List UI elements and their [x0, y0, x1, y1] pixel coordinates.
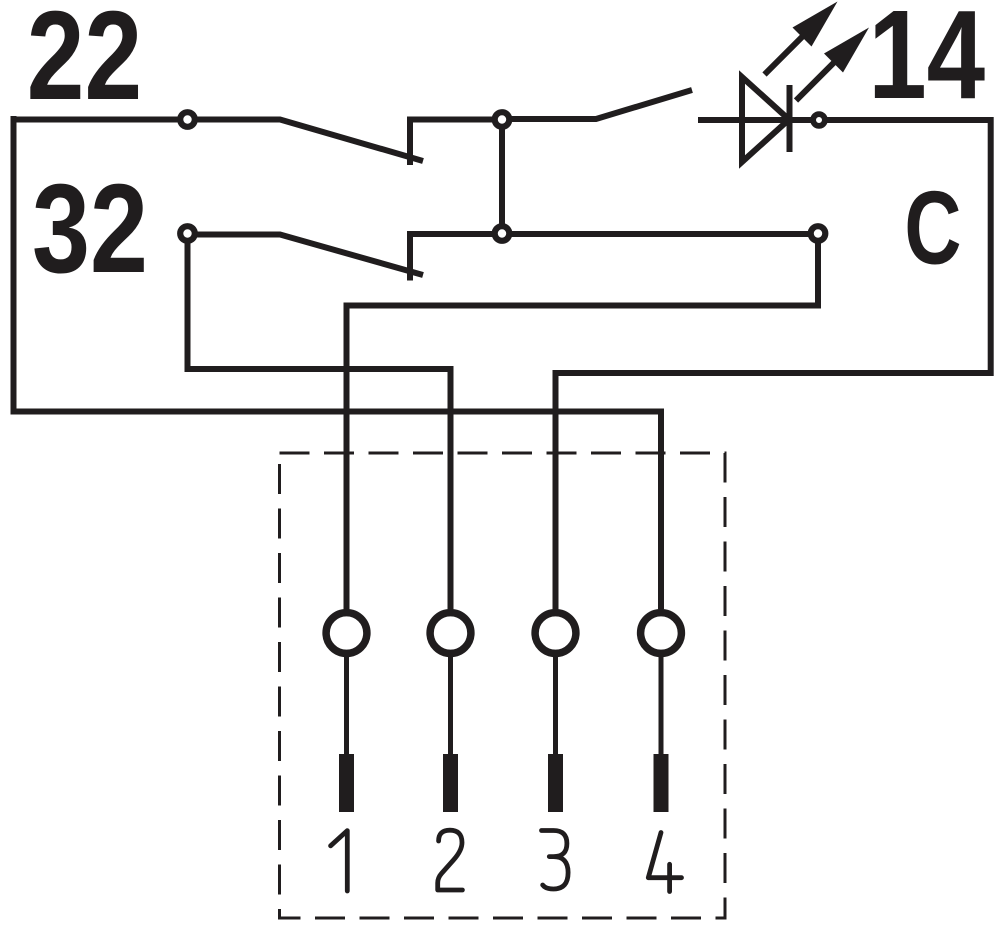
svg-text:22: 22 [27, 0, 142, 126]
svg-text:32: 32 [32, 157, 148, 299]
svg-text:C: C [904, 169, 961, 286]
svg-text:14: 14 [868, 0, 985, 125]
